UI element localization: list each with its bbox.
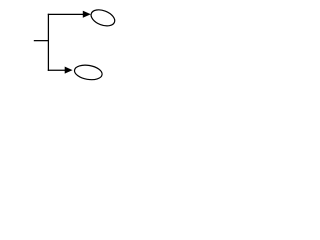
wire: left stub: [34, 40, 49, 42]
node: top ellipse: [89, 7, 117, 29]
wire: bottom branch: [48, 69, 66, 71]
wire: top branch: [48, 13, 84, 15]
node: bottom ellipse: [73, 63, 103, 81]
arrowhead: top: [83, 11, 90, 17]
wire: vertical trunk: [47, 14, 49, 71]
arrowhead: bottom: [65, 67, 72, 73]
